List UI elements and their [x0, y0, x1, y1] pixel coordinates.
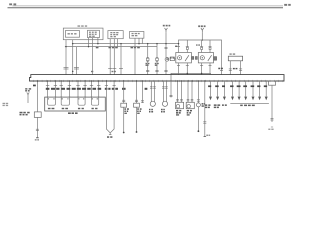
wire x88.5 to link B: [88, 38, 90, 47]
sensor M3: [197, 81, 199, 103]
blower resistor loop: [78, 81, 85, 105]
arrow wire: [245, 81, 247, 97]
wire x76.4 from link B: [75, 47, 77, 75]
label on wire 221.5: [218, 68, 220, 70]
fuse F1: [147, 44, 149, 75]
arrow wire: [210, 81, 212, 97]
stub wire x142.5: [142, 81, 144, 103]
wire condenser to bus: [165, 61, 167, 74]
connector C2 label: [198, 25, 200, 27]
header rule upper: [12, 5, 283, 7]
battery box A: [65, 31, 79, 38]
wire from tab down: [271, 85, 273, 122]
connector C1 label: [163, 25, 165, 27]
wire x72.7: [72, 40, 74, 75]
arrow wire: [238, 81, 240, 97]
main bus connector strip: [30, 75, 285, 81]
relay R1 side connector: [170, 57, 174, 61]
component E box: [228, 56, 242, 61]
option fork stub: [25, 88, 27, 89]
labels under left arrows: [205, 104, 207, 106]
wire C2 down to feed line: [201, 32, 203, 40]
arrow wire: [217, 81, 219, 97]
blower resistor loop: [48, 81, 56, 105]
long wire x204.8: [204, 81, 206, 137]
arrow wire: [232, 81, 234, 97]
relay R2 pins up: [201, 40, 203, 53]
wire x92.6 to bus: [92, 38, 94, 75]
arrow wire: [259, 81, 261, 97]
bracket under arrows: [230, 102, 269, 104]
far left component label: [3, 103, 6, 104]
component G sensor: [136, 81, 138, 103]
label UNDER-HOOD FUSE/RELAY BOX: [78, 25, 81, 26]
motor M2: [162, 81, 164, 102]
blower relay box C: [108, 31, 123, 39]
wire color band under bus left: [46, 88, 50, 90]
arrow wire: [223, 81, 225, 97]
wire x37: [36, 81, 38, 112]
relay R1 pin up right: [186, 40, 188, 53]
relay R1 pin label: [175, 46, 177, 47]
relay R2 side connector cap: [214, 57, 217, 61]
page number label top-left: [9, 3, 12, 5]
actuator H2: [187, 81, 189, 102]
collector wire above bus: [171, 73, 211, 81]
pin ticks along bus bottom edge: [34, 80, 283, 82]
bus bottom tab right: [269, 81, 276, 85]
connector C2 fork: [201, 28, 204, 32]
relay R2 pins down: [201, 63, 203, 75]
bracket label: [240, 105, 243, 107]
relay R1 right cap: [192, 57, 194, 60]
relay R1 box: [176, 53, 192, 63]
component F sensor: [123, 81, 125, 103]
funnel wire labels: [105, 88, 108, 90]
wire x121 link A to bus: [120, 44, 122, 75]
V funnel wires to ground point: [106, 81, 114, 133]
arrow wire: [252, 81, 254, 97]
wire C1 to noise condenser: [165, 32, 167, 57]
box C pin wires: [109, 39, 111, 75]
motor M1: [150, 81, 152, 102]
actuator H1: [177, 81, 179, 102]
wire color labels under boxes: [96, 47, 99, 48]
wire x65: [65, 40, 67, 75]
page number label top-right: [284, 4, 287, 6]
fuse/relay box enclosure: [63, 28, 103, 40]
feed wire y40: [179, 40, 222, 75]
main fuse box B: [88, 30, 100, 37]
ground bar: [36, 137, 39, 139]
condenser box: [34, 112, 41, 118]
fuse box D: [130, 32, 144, 39]
blower resistor loop: [61, 81, 69, 105]
fuse F2: [156, 44, 158, 75]
relay R1 pins down: [178, 63, 180, 75]
noise condenser circle: [165, 57, 169, 61]
stub x171 below bus: [170, 81, 172, 98]
wire to ground: [36, 117, 38, 137]
header rule lower: [8, 7, 284, 9]
arrow wire: [265, 81, 267, 97]
connector C1 fork: [165, 28, 168, 32]
component E legs: [229, 61, 231, 75]
link wire B y46.6: [65, 46, 157, 48]
link wire A y43.6: [73, 43, 179, 45]
heater unit box: [45, 97, 106, 111]
relay R2 box: [198, 53, 213, 63]
junction dot at 166 on link A: [165, 43, 167, 45]
wire x97.9 to link A: [97, 38, 99, 44]
relay R2 left cap: [195, 57, 197, 60]
blower resistor loop: [92, 81, 99, 105]
box D pin wires: [134, 38, 136, 74]
